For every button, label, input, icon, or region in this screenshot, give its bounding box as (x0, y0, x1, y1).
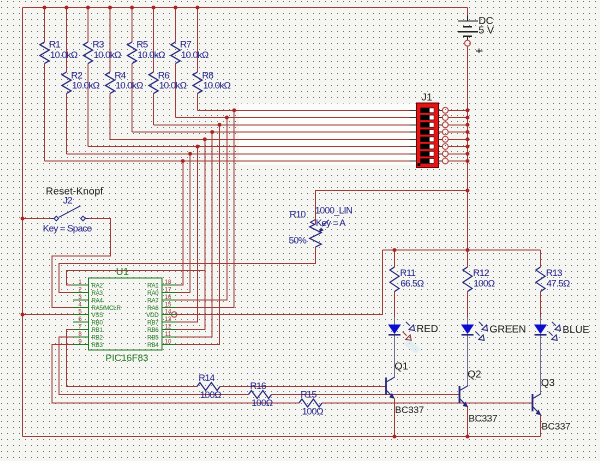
wire J1 right pin to rail (448, 153, 467, 155)
svg-text:VDD: VDD (146, 313, 159, 319)
J1 right pin stubs (439, 110, 443, 161)
svg-text:R13: R13 (546, 268, 562, 279)
svg-text:15: 15 (165, 302, 172, 308)
wire bundle tap to U1 pin (R4) (177, 139, 205, 329)
wire bundle tap to U1 pin (R7) (177, 118, 227, 301)
svg-text:R10: R10 (290, 210, 306, 221)
svg-text:Q1: Q1 (395, 362, 409, 373)
svg-text:10.0kΩ: 10.0kΩ (116, 80, 144, 91)
wire bundle tap to U1 pin (R6) (177, 125, 220, 345)
wire left rail to J2 (23, 218, 52, 220)
svg-text:R1: R1 (49, 39, 60, 50)
wire LED RED to Q1 collector (394, 336, 396, 378)
wire bundle tap to U1 pin (R3) (177, 147, 198, 323)
wire bus to resistor top (540, 250, 542, 267)
wire U1 RB2 to R16 (59, 337, 249, 395)
wire bundle tap to U1 pin (R8) (177, 110, 234, 307)
svg-text:RB5: RB5 (147, 335, 159, 341)
wire top bus to R5 (131, 8, 133, 43)
wire top bus to R3 (87, 8, 89, 43)
resistor R8 10.0kOhm (193, 70, 231, 93)
resistor R5 10.0kOhm (127, 39, 165, 63)
resistor R11 (390, 267, 424, 292)
svg-text:PIC16F83: PIC16F83 (106, 353, 149, 364)
svg-text:10.0kΩ: 10.0kΩ (159, 80, 187, 91)
resistor R7 10.0kOhm (171, 39, 209, 63)
svg-text:100Ω: 100Ω (252, 398, 273, 409)
transistor Q3 BC337 (533, 394, 542, 415)
resistor R1 10.0kOhm (40, 39, 78, 63)
svg-text:10.0kΩ: 10.0kΩ (94, 50, 122, 61)
J1 left pin stubs (410, 110, 417, 161)
wire R3 bottom lead drop (87, 64, 89, 147)
wire bus to resistor top (467, 250, 469, 267)
resistor R13 (536, 267, 570, 292)
wire R14 to Q1 base (220, 386, 386, 388)
svg-text:10.0kΩ: 10.0kΩ (72, 80, 100, 91)
svg-text:1000_LIN: 1000_LIN (315, 206, 353, 217)
wire bottom ground bus (23, 436, 541, 438)
svg-text:R7: R7 (180, 39, 191, 50)
wire J1 right pin to rail (448, 117, 467, 119)
svg-text:14: 14 (165, 309, 172, 315)
svg-text:10.0kΩ: 10.0kΩ (50, 50, 78, 61)
wire J2 to U1 MCLR (52, 219, 111, 308)
svg-text:18: 18 (165, 280, 172, 286)
resistor R12 (463, 267, 495, 292)
svg-text:10.0kΩ: 10.0kΩ (181, 50, 209, 61)
wire R8 run to J1 (198, 109, 410, 111)
wire top bus to R7 (175, 8, 177, 43)
wire left rail vertical (22, 8, 24, 437)
LED GREEN (461, 322, 488, 341)
svg-text:RED: RED (417, 324, 439, 335)
wire bundle tap to U1 pin (R1) (177, 161, 183, 285)
svg-text:J2: J2 (63, 196, 72, 207)
svg-text:12: 12 (165, 324, 172, 330)
wire R4 run to J1 (110, 138, 410, 140)
wire LED anode lead (540, 317, 542, 325)
wire R2 run to J1 (67, 153, 410, 155)
wire Q3 emitter drop (540, 415, 542, 437)
resistor R14 100Ohm (197, 373, 221, 401)
svg-text:11: 11 (165, 332, 172, 338)
svg-text:BC337: BC337 (542, 422, 571, 433)
svg-text:RB4: RB4 (147, 343, 159, 349)
wire top bus to R6 (153, 8, 155, 73)
svg-text:Key = Space: Key = Space (43, 224, 92, 235)
wire top bus +battery rail (23, 7, 468, 9)
svg-text:RA2: RA2 (92, 283, 104, 289)
wire J1 right pin to rail (448, 124, 467, 126)
connector J1 DIP switch (417, 93, 439, 168)
wire J1 right pin to rail (448, 109, 467, 111)
svg-text:RA0: RA0 (147, 291, 159, 297)
transistor Q2 BC337 (460, 386, 469, 407)
svg-text:GREEN: GREEN (490, 325, 527, 336)
svg-text:17: 17 (165, 287, 172, 293)
svg-text:R11: R11 (400, 268, 415, 279)
wire left rail to U1 VSS (23, 314, 74, 316)
wire R5 bottom lead drop (131, 64, 133, 133)
wire R6 bottom lead drop (153, 94, 155, 125)
svg-text:47.5Ω: 47.5Ω (547, 279, 570, 290)
clean redraw zone behind wire bundle (239, 104, 417, 165)
svg-text:U1: U1 (116, 267, 129, 278)
svg-text:50%: 50% (289, 236, 308, 247)
svg-text:RA6: RA6 (147, 306, 159, 312)
wire LED BLUE to Q3 collector (540, 336, 542, 395)
wire R15 to Q3 base (322, 402, 532, 404)
wire pot bottom to U1 RA3 (59, 247, 316, 293)
svg-text:BC337: BC337 (469, 414, 498, 425)
svg-text:J1: J1 (422, 93, 433, 104)
svg-text:10.0kΩ: 10.0kΩ (203, 80, 231, 91)
svg-text:Reset-Knopf: Reset-Knopf (46, 187, 103, 198)
wire Q2 emitter to ground bus (467, 407, 469, 437)
wire top bus to R1 (44, 8, 46, 43)
switch J2 Reset-Knopf (51, 206, 89, 221)
svg-text:R16: R16 (250, 381, 266, 392)
U1 VDD unconnected-style circle (172, 312, 177, 317)
svg-text:RA1: RA1 (147, 283, 159, 289)
svg-text:VSS: VSS (92, 313, 104, 319)
wire top bus to R2 (66, 8, 68, 73)
svg-text:R5: R5 (137, 39, 148, 50)
highlight smudge under RED LED (404, 339, 421, 354)
svg-text:R3: R3 (93, 39, 104, 50)
wire R2 bottom lead drop (66, 94, 68, 154)
svg-text:100Ω: 100Ω (474, 279, 495, 290)
wire R6 run to J1 (154, 124, 410, 126)
LED BLUE (534, 322, 561, 341)
wire R3 run to J1 (88, 146, 410, 148)
svg-text:R12: R12 (473, 268, 489, 279)
svg-text:100Ω: 100Ω (302, 407, 323, 418)
wire R7 bottom lead drop (175, 64, 177, 118)
potentiometer R10 1000_LIN (289, 206, 353, 248)
wire R4 bottom lead drop (109, 94, 111, 140)
LED RED (388, 322, 415, 341)
wire R8 bottom lead drop (197, 94, 199, 111)
svg-text:10: 10 (165, 339, 172, 345)
svg-text:RA5/MCLR: RA5/MCLR (92, 306, 122, 312)
svg-text:R15: R15 (301, 390, 317, 401)
wire R7 run to J1 (176, 117, 410, 119)
svg-text:RB1: RB1 (92, 328, 104, 334)
wire U1 RB3 to R15 (52, 345, 299, 404)
wire U1 RB1 to R14 (67, 330, 198, 387)
wire R16 to Q2 base (272, 394, 460, 396)
svg-text:RA4: RA4 (92, 298, 104, 304)
resistor R2 10.0kOhm (62, 70, 100, 93)
svg-text:RB6: RB6 (147, 328, 159, 334)
svg-text:BC337: BC337 (395, 405, 424, 416)
wire top bus to R4 (109, 8, 111, 73)
wire resistor to LED wire (540, 292, 542, 318)
battery DC 5V (458, 16, 494, 54)
svg-text:100Ω: 100Ω (200, 390, 221, 401)
wire J1 right pin to rail (448, 138, 467, 140)
svg-text:13: 13 (165, 317, 172, 323)
svg-text:Q3: Q3 (541, 378, 555, 389)
wire R1 run to J1 (45, 160, 410, 162)
resistor R6 10.0kOhm (149, 70, 187, 93)
transistor Q1 BC337 (386, 377, 395, 398)
wire battery bottom rail to LED bus (467, 46, 469, 250)
svg-text:RA3: RA3 (92, 291, 104, 297)
resistor R3 10.0kOhm (83, 39, 121, 63)
J1 right pin circles (442, 107, 448, 164)
wire Q1 emitter to ground bus (394, 399, 396, 437)
svg-text:16: 16 (165, 295, 172, 301)
svg-text:RA7: RA7 (147, 298, 159, 304)
svg-text:RB3: RB3 (92, 343, 104, 349)
resistor R15 100Ohm (299, 390, 323, 418)
IC U1 PIC16F83 (73, 267, 177, 364)
svg-text:5 V: 5 V (479, 26, 495, 37)
svg-text:RB0: RB0 (92, 320, 104, 326)
wire J1 right pin to rail (448, 160, 467, 162)
wire resistor to LED wire (467, 292, 469, 318)
svg-text:Key = A: Key = A (316, 218, 347, 229)
wire node line to U1 RA2 (67, 271, 205, 286)
svg-text:66.5Ω: 66.5Ω (401, 279, 424, 290)
wire LED resistor bus (383, 249, 541, 251)
wire pot top to +V rail (316, 191, 468, 225)
wire R1 bottom lead drop (44, 64, 46, 162)
svg-text:RB2: RB2 (92, 335, 104, 341)
wire U1 VDD to +V bus (177, 250, 383, 315)
wire bus to resistor top (394, 250, 396, 267)
wire LED anode lead (394, 317, 396, 325)
wire J1 right pin to rail (448, 146, 467, 148)
wire resistor to LED wire (394, 292, 396, 318)
svg-text:RB7: RB7 (147, 320, 159, 326)
svg-text:BLUE: BLUE (563, 325, 590, 336)
svg-text:R14: R14 (199, 373, 215, 384)
resistor R16 100Ohm (249, 381, 273, 409)
wire LED GREEN to Q2 collector (467, 336, 469, 387)
wire LED anode lead (467, 317, 469, 325)
wire battery top lead (467, 8, 469, 16)
wire bundle tap to U1 pin (R2) (177, 154, 190, 293)
svg-text:Q2: Q2 (468, 370, 482, 381)
svg-text:10.0kΩ: 10.0kΩ (138, 50, 166, 61)
wire J1 right pin to rail (448, 131, 467, 133)
wire top bus to R8 (197, 8, 199, 73)
wire R5 run to J1 (132, 131, 410, 133)
resistor R4 10.0kOhm (105, 70, 143, 93)
wire bundle tap to U1 pin (R5) (177, 132, 212, 337)
